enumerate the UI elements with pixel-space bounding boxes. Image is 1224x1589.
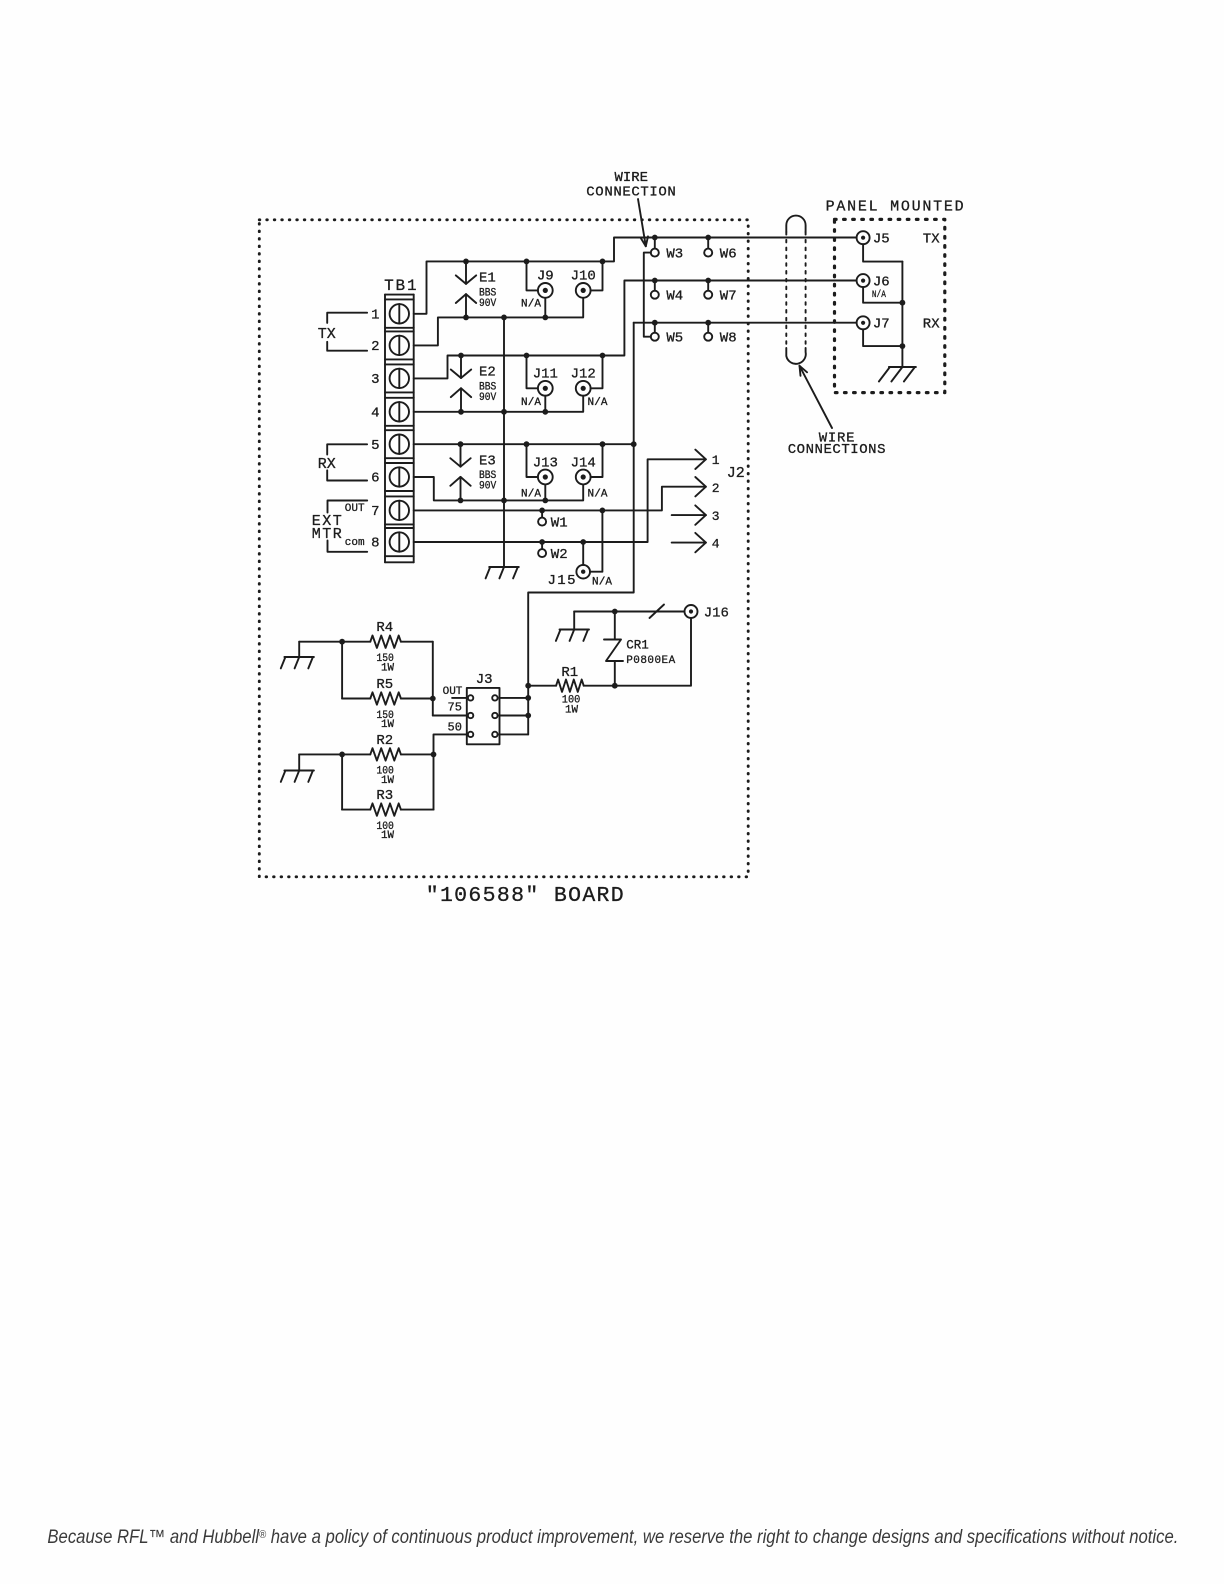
svg-text:1W: 1W <box>565 704 578 716</box>
svg-text:J16: J16 <box>704 605 729 621</box>
svg-text:R3: R3 <box>376 788 393 804</box>
svg-text:N/A: N/A <box>521 299 541 311</box>
svg-text:N/A: N/A <box>592 577 612 589</box>
svg-text:W2: W2 <box>551 547 568 563</box>
svg-text:W6: W6 <box>720 247 737 263</box>
svg-text:J3: J3 <box>476 672 493 688</box>
svg-text:PANEL MOUNTED: PANEL MOUNTED <box>826 198 964 215</box>
svg-text:3: 3 <box>371 372 379 388</box>
svg-text:W4: W4 <box>666 289 683 305</box>
svg-text:3: 3 <box>712 509 720 524</box>
svg-text:P0800EA: P0800EA <box>626 655 675 667</box>
svg-text:W1: W1 <box>551 516 568 532</box>
svg-text:90V: 90V <box>479 298 497 310</box>
svg-text:J5: J5 <box>873 232 890 248</box>
svg-text:2: 2 <box>712 481 720 496</box>
svg-text:OUT: OUT <box>443 686 463 698</box>
svg-text:50: 50 <box>448 721 462 735</box>
svg-text:75: 75 <box>448 701 462 715</box>
svg-text:"106588" BOARD: "106588" BOARD <box>426 884 624 908</box>
svg-text:CONNECTIONS: CONNECTIONS <box>788 442 886 458</box>
svg-text:TX: TX <box>923 232 940 248</box>
svg-text:J14: J14 <box>571 455 596 471</box>
svg-text:E2: E2 <box>479 365 496 381</box>
svg-text:W7: W7 <box>720 289 737 305</box>
svg-text:N/A: N/A <box>872 289 886 301</box>
svg-text:R2: R2 <box>376 733 393 749</box>
svg-text:CONNECTION: CONNECTION <box>586 184 676 200</box>
svg-text:1: 1 <box>371 307 379 323</box>
svg-text:TB1: TB1 <box>384 277 417 295</box>
svg-text:J10: J10 <box>571 269 596 285</box>
svg-text:TX: TX <box>318 326 336 343</box>
svg-text:RX: RX <box>318 456 336 473</box>
svg-text:1: 1 <box>712 453 720 468</box>
svg-text:1W: 1W <box>381 830 394 842</box>
svg-text:Because RFL™ and Hubbell® have: Because RFL™ and Hubbell® have a policy … <box>47 1527 1178 1548</box>
svg-text:5: 5 <box>371 438 379 454</box>
svg-text:1W: 1W <box>381 775 394 787</box>
svg-text:2: 2 <box>371 339 379 355</box>
svg-text:J2: J2 <box>727 465 745 482</box>
svg-text:R1: R1 <box>561 665 578 681</box>
svg-text:W8: W8 <box>720 331 737 347</box>
svg-text:CR1: CR1 <box>626 639 649 653</box>
svg-text:R5: R5 <box>376 677 393 693</box>
svg-text:W5: W5 <box>666 331 683 347</box>
svg-text:90V: 90V <box>479 481 497 493</box>
svg-text:J12: J12 <box>571 367 596 383</box>
svg-text:7: 7 <box>371 504 379 520</box>
svg-text:90V: 90V <box>479 392 497 404</box>
svg-text:J11: J11 <box>533 367 558 383</box>
svg-text:4: 4 <box>371 405 379 421</box>
svg-text:1W: 1W <box>381 662 394 674</box>
svg-text:J6: J6 <box>873 275 890 291</box>
svg-text:WIRE: WIRE <box>615 170 649 186</box>
svg-text:6: 6 <box>371 471 379 487</box>
svg-text:J9: J9 <box>537 269 554 285</box>
svg-text:MTR: MTR <box>312 526 342 543</box>
svg-text:E1: E1 <box>479 271 496 287</box>
svg-text:N/A: N/A <box>588 489 608 501</box>
svg-text:J15: J15 <box>548 573 576 589</box>
svg-text:R4: R4 <box>376 620 393 636</box>
svg-text:W3: W3 <box>666 247 683 263</box>
svg-text:4: 4 <box>712 537 720 552</box>
svg-text:E3: E3 <box>479 453 496 469</box>
svg-text:J7: J7 <box>873 317 890 333</box>
svg-text:1W: 1W <box>381 719 394 731</box>
svg-text:N/A: N/A <box>521 489 541 501</box>
svg-text:N/A: N/A <box>521 397 541 409</box>
svg-text:N/A: N/A <box>588 397 608 409</box>
svg-text:J13: J13 <box>533 455 558 471</box>
svg-text:8: 8 <box>371 536 379 552</box>
svg-text:com: com <box>345 537 365 549</box>
svg-text:RX: RX <box>923 317 940 333</box>
svg-text:OUT: OUT <box>345 503 365 515</box>
